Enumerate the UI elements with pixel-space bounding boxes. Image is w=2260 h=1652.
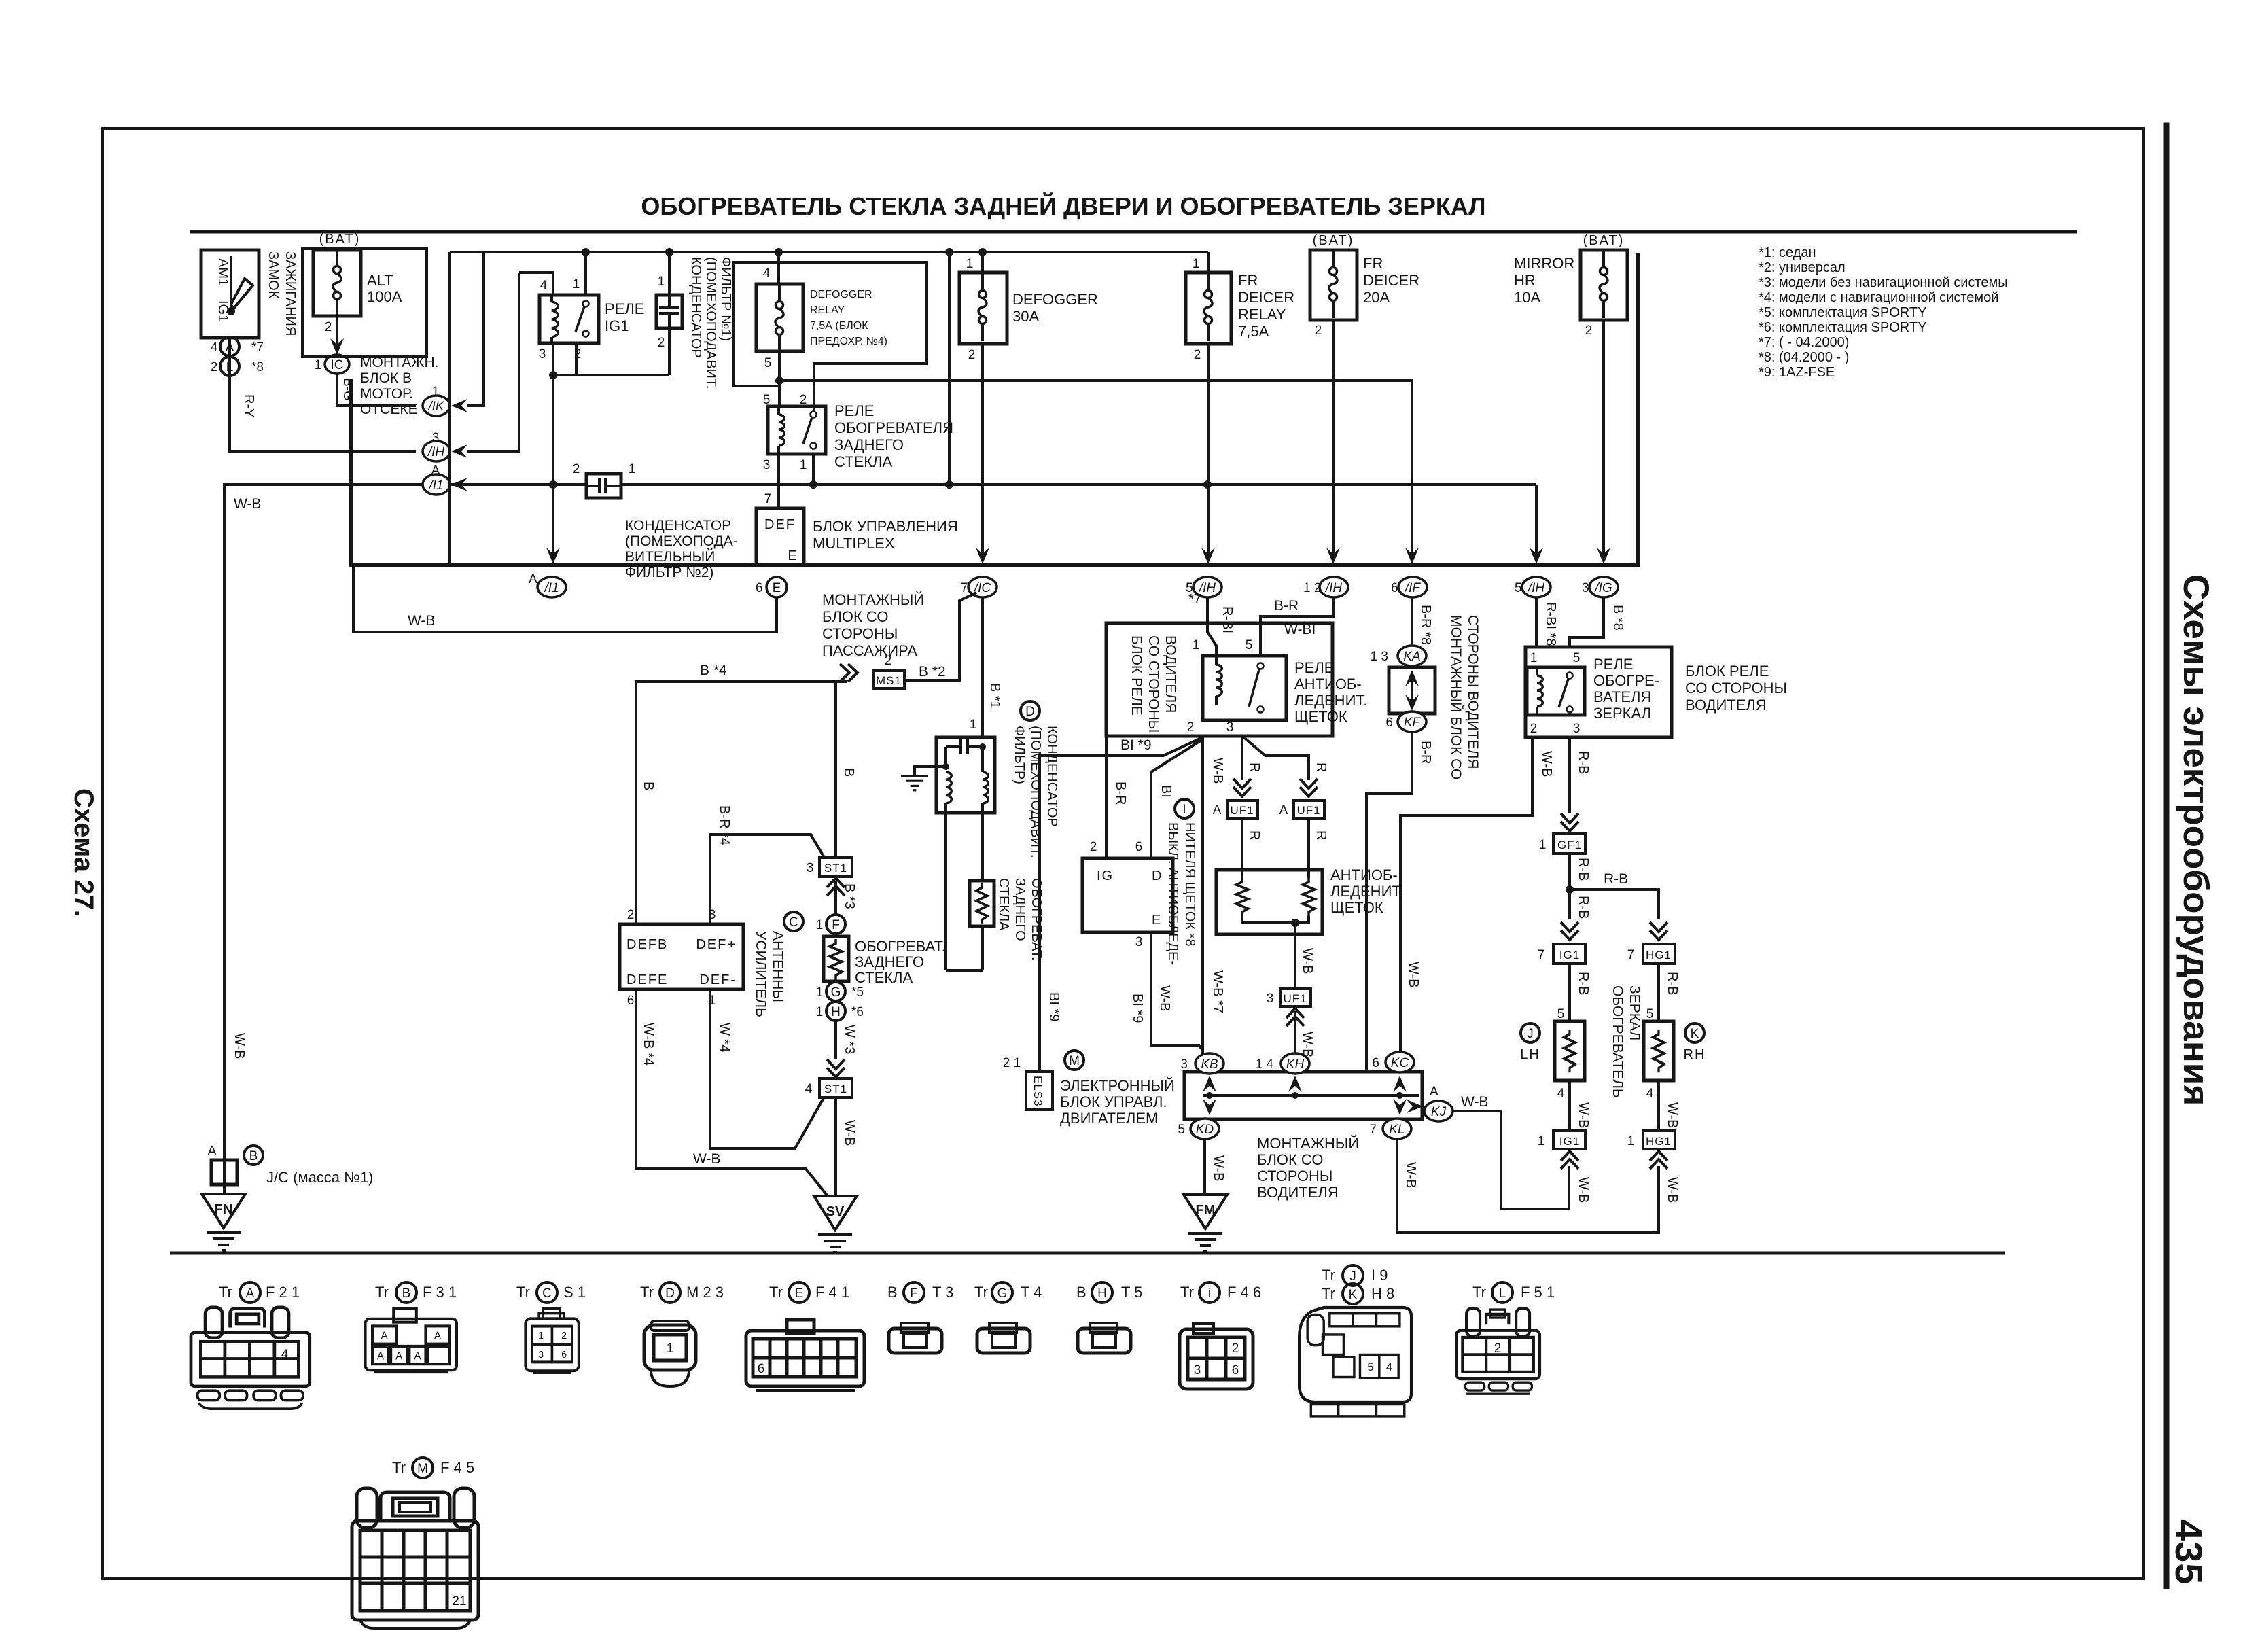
wire BI to D pin6 bbox=[1151, 739, 1203, 858]
svg-text:FR: FR bbox=[1363, 255, 1383, 272]
svg-text:1 4: 1 4 bbox=[1256, 1057, 1274, 1072]
svg-text:1: 1 bbox=[816, 918, 824, 932]
svg-text:КОНДЕНСАТОР: КОНДЕНСАТОР bbox=[688, 257, 703, 358]
svg-text:B-R *8: B-R *8 bbox=[1418, 605, 1433, 645]
svg-text:7: 7 bbox=[1369, 1123, 1377, 1137]
svg-text:4: 4 bbox=[281, 1348, 289, 1362]
internal bus with arrows bbox=[1203, 1094, 1419, 1097]
svg-text:HR: HR bbox=[1514, 272, 1536, 289]
svg-text:4: 4 bbox=[1646, 1087, 1654, 1101]
svg-text:KD: KD bbox=[1196, 1123, 1214, 1137]
svg-text:UF1: UF1 bbox=[1283, 992, 1307, 1005]
svg-text:5: 5 bbox=[763, 393, 771, 407]
svg-text:/IG: /IG bbox=[1593, 581, 1612, 595]
wire W-B mirror relay pin2 to KC bbox=[1400, 737, 1532, 1052]
svg-text:1: 1 bbox=[1530, 651, 1538, 665]
svg-text:ЗЕРКАЛ: ЗЕРКАЛ bbox=[1593, 705, 1651, 722]
svg-text:6: 6 bbox=[758, 1362, 765, 1376]
svg-text:*9: 1AZ-FSE: *9: 1AZ-FSE bbox=[1759, 365, 1835, 380]
svg-text:1: 1 bbox=[1538, 1134, 1545, 1148]
svg-text:Схема 27.: Схема 27. bbox=[69, 788, 99, 917]
svg-text:7: 7 bbox=[764, 492, 772, 506]
svg-text:W-B: W-B bbox=[234, 496, 261, 512]
svg-text:W-B: W-B bbox=[232, 1033, 247, 1059]
svg-text:3: 3 bbox=[539, 347, 546, 362]
IC connector oval bbox=[325, 355, 349, 374]
svg-text:Tr: Tr bbox=[640, 1284, 654, 1301]
svg-text:6: 6 bbox=[756, 581, 763, 595]
svg-text:A: A bbox=[395, 1350, 403, 1362]
svg-text:M: M bbox=[417, 1462, 428, 1476]
svg-text:ЗАМОК: ЗАМОК bbox=[266, 251, 281, 299]
svg-text:*7: ( - 04.2000): *7: ( - 04.2000) bbox=[1759, 335, 1849, 350]
svg-text:A: A bbox=[1430, 1085, 1438, 1099]
svg-text:D: D bbox=[665, 1286, 675, 1301]
svg-text:1: 1 bbox=[538, 1331, 544, 1342]
svg-text:W-B: W-B bbox=[1539, 751, 1554, 777]
svg-text:I 9: I 9 bbox=[1371, 1267, 1388, 1284]
svg-text:R-B: R-B bbox=[1576, 751, 1591, 774]
svg-text:Tr: Tr bbox=[1322, 1267, 1335, 1284]
svg-text:ВОДИТЕЛЯ: ВОДИТЕЛЯ bbox=[1685, 697, 1767, 714]
svg-text:G: G bbox=[997, 1286, 1008, 1301]
svg-text:AM1: AM1 bbox=[215, 258, 230, 286]
svg-text:G: G bbox=[831, 985, 841, 1000]
svg-text:3: 3 bbox=[1267, 991, 1274, 1006]
svg-text:B-R: B-R bbox=[1418, 741, 1433, 764]
svg-text:ЗАДНЕГО: ЗАДНЕГО bbox=[855, 953, 924, 970]
svg-text:(BAT): (BAT) bbox=[1313, 233, 1354, 248]
svg-text:R: R bbox=[1313, 830, 1328, 840]
svg-text:F 4 1: F 4 1 bbox=[815, 1284, 849, 1301]
wire W-B*4 DEFE to SV bbox=[636, 989, 828, 1196]
svg-text:T 3: T 3 bbox=[932, 1284, 953, 1301]
connector C S1 bbox=[525, 1309, 578, 1373]
svg-text:4: 4 bbox=[540, 279, 548, 293]
wire R relay pin3 to UF1 bbox=[1241, 736, 1243, 780]
svg-text:1: 1 bbox=[1627, 1134, 1635, 1148]
svg-text:W-B: W-B bbox=[1403, 1162, 1418, 1189]
svg-text:НИТЕЛЯ ЩЕТОК *8: НИТЕЛЯ ЩЕТОК *8 bbox=[1182, 822, 1197, 947]
svg-text:6: 6 bbox=[1385, 716, 1393, 730]
svg-text:IG1: IG1 bbox=[1559, 1135, 1580, 1148]
svg-text:2: 2 bbox=[1187, 720, 1195, 735]
svg-text:(ПОМЕХОПОДАВИТ.: (ПОМЕХОПОДАВИТ. bbox=[703, 257, 718, 389]
wire rail y560 to /IF bbox=[779, 381, 1412, 556]
svg-text:A: A bbox=[431, 463, 440, 478]
svg-text:1: 1 bbox=[658, 275, 665, 289]
svg-text:(BAT): (BAT) bbox=[319, 232, 361, 247]
svg-text:SV: SV bbox=[826, 1204, 845, 1219]
connector M F45 bbox=[352, 1488, 478, 1628]
svg-text:B: B bbox=[641, 781, 656, 790]
small junction connector square bbox=[211, 1160, 237, 1184]
svg-text:2: 2 bbox=[800, 393, 807, 407]
svg-text:/IH: /IH bbox=[1527, 581, 1545, 595]
svg-text:5: 5 bbox=[1178, 1123, 1185, 1137]
svg-text:A: A bbox=[529, 572, 537, 586]
svg-text:6: 6 bbox=[1135, 840, 1143, 854]
svg-text:FN: FN bbox=[215, 1202, 233, 1217]
capacitor (noise filter 2) bbox=[586, 474, 621, 498]
svg-text:1: 1 bbox=[432, 385, 440, 399]
svg-text:R: R bbox=[1247, 762, 1262, 772]
svg-text:СО СТОРОНЫ: СО СТОРОНЫ bbox=[1685, 680, 1787, 697]
svg-text:5: 5 bbox=[1646, 1007, 1654, 1021]
svg-text:BI *9: BI *9 bbox=[1046, 992, 1061, 1021]
connector E F41 bbox=[746, 1320, 864, 1390]
wire R-BI*8 to mirror relay pin1 bbox=[1535, 597, 1538, 647]
wire main left vertical bus bbox=[448, 252, 451, 565]
G and H circles bbox=[826, 982, 845, 1001]
svg-text:2: 2 bbox=[1315, 323, 1322, 338]
svg-text:Tr: Tr bbox=[375, 1284, 389, 1301]
svg-text:RELAY: RELAY bbox=[810, 304, 845, 316]
wire R-BI*7 to deicer relay pin1 bbox=[1207, 597, 1216, 656]
svg-text:СТЕКЛА: СТЕКЛА bbox=[996, 878, 1011, 931]
svg-text:R-Y: R-Y bbox=[241, 394, 256, 417]
svg-text:Tr: Tr bbox=[1472, 1284, 1486, 1301]
svg-text:100A: 100A bbox=[367, 288, 402, 305]
svg-text:E: E bbox=[795, 1286, 804, 1301]
svg-text:*8: *8 bbox=[251, 360, 264, 374]
svg-text:6: 6 bbox=[1391, 581, 1398, 595]
svg-text:DEF+: DEF+ bbox=[696, 937, 737, 952]
svg-text:ST1: ST1 bbox=[824, 1083, 847, 1095]
svg-text:ПРЕДОХР. №4): ПРЕДОХР. №4) bbox=[810, 336, 887, 347]
svg-text:ОТСЕКЕ: ОТСЕКЕ bbox=[360, 402, 418, 417]
svg-text:ELS3: ELS3 bbox=[1031, 1076, 1044, 1107]
svg-text:4: 4 bbox=[211, 340, 218, 355]
svg-text:СО СТОРОНЫ: СО СТОРОНЫ bbox=[1146, 635, 1161, 733]
svg-text:IG1: IG1 bbox=[215, 300, 230, 322]
svg-text:ЗАЖИГАНИЯ: ЗАЖИГАНИЯ bbox=[283, 251, 298, 336]
svg-text:B: B bbox=[841, 768, 856, 777]
svg-text:RELAY: RELAY bbox=[1238, 306, 1286, 323]
svg-text:1: 1 bbox=[816, 1005, 824, 1019]
svg-text:*4: модели с навигационной сис: *4: модели с навигационной системой bbox=[1759, 290, 1998, 305]
svg-text:1 2: 1 2 bbox=[1303, 581, 1321, 595]
svg-text:*1: седан: *1: седан bbox=[1759, 245, 1816, 260]
svg-text:ЩЕТОК: ЩЕТОК bbox=[1294, 708, 1347, 725]
svg-text:B: B bbox=[887, 1284, 898, 1301]
svg-text:7: 7 bbox=[961, 581, 968, 595]
svg-text:/I1: /I1 bbox=[543, 581, 559, 595]
svg-text:2: 2 bbox=[211, 360, 218, 374]
svg-text:H 8: H 8 bbox=[1371, 1285, 1394, 1302]
svg-text:*5: комплектация SPORTY: *5: комплектация SPORTY bbox=[1759, 305, 1926, 320]
svg-text:1: 1 bbox=[800, 458, 807, 472]
svg-text:R-BI: R-BI bbox=[1220, 606, 1235, 633]
svg-text:3: 3 bbox=[1180, 1057, 1188, 1072]
svg-text:IG1: IG1 bbox=[1559, 949, 1580, 962]
svg-text:435: 435 bbox=[2168, 1519, 2210, 1585]
svg-text:ОБОГРЕВАТ.: ОБОГРЕВАТ. bbox=[855, 938, 946, 955]
svg-text:FR: FR bbox=[1238, 272, 1258, 289]
svg-text:2: 2 bbox=[325, 320, 332, 334]
legend bbox=[1759, 245, 2008, 380]
wiper deicer heater box bbox=[1216, 870, 1322, 934]
svg-text:БЛОК В: БЛОК В bbox=[360, 370, 412, 386]
rear window heater resistor bbox=[824, 936, 849, 981]
svg-text:KC: KC bbox=[1391, 1056, 1409, 1070]
svg-text:W-B: W-B bbox=[1576, 1102, 1591, 1129]
svg-text:2: 2 bbox=[1585, 323, 1593, 338]
svg-text:B *1: B *1 bbox=[987, 683, 1002, 709]
svg-text:АНТИОБ-: АНТИОБ- bbox=[1330, 866, 1398, 883]
svg-text:/IF: /IF bbox=[1404, 581, 1422, 595]
svg-text:W-B: W-B bbox=[693, 1151, 720, 1167]
wire W-B return KJ to IG1 bbox=[1453, 1111, 1569, 1209]
svg-text:A: A bbox=[377, 1350, 385, 1362]
svg-text:F: F bbox=[832, 918, 840, 932]
wire to FN ground triangle bbox=[223, 1184, 226, 1194]
svg-text:E: E bbox=[1152, 913, 1161, 928]
wire W-B ground run to J/C bbox=[224, 485, 423, 1160]
svg-text:ЗАДНЕГО: ЗАДНЕГО bbox=[1012, 878, 1027, 941]
svg-text:BI *9: BI *9 bbox=[1120, 737, 1152, 753]
svg-text:Tr: Tr bbox=[516, 1284, 530, 1301]
svg-text:R-B: R-B bbox=[1576, 858, 1591, 881]
svg-text:M: M bbox=[1069, 1054, 1080, 1068]
connector J/K H8 bbox=[1299, 1307, 1411, 1416]
svg-text:HG1: HG1 bbox=[1646, 1135, 1672, 1148]
svg-text:БЛОК СО: БЛОК СО bbox=[822, 608, 888, 625]
wire W-B KD to FM ground bbox=[1203, 1139, 1206, 1195]
wire W-B from E to bus end bbox=[353, 565, 777, 632]
svg-text:2: 2 bbox=[968, 348, 976, 362]
svg-text:ЭЛЕКТРОННЫЙ: ЭЛЕКТРОННЫЙ bbox=[1060, 1077, 1175, 1094]
svg-text:J: J bbox=[1527, 1027, 1534, 1041]
svg-text:KH: KH bbox=[1286, 1057, 1305, 1072]
svg-text:2: 2 bbox=[561, 1331, 567, 1342]
svg-text:F 3 1: F 3 1 bbox=[423, 1284, 457, 1301]
svg-text:ОБОГРЕВАТЕЛЬ: ОБОГРЕВАТЕЛЬ bbox=[1610, 985, 1625, 1098]
svg-text:ВАТЕЛЯ: ВАТЕЛЯ bbox=[1593, 688, 1651, 705]
svg-text:W-B: W-B bbox=[1211, 1155, 1226, 1182]
svg-text:*6: *6 bbox=[851, 1005, 864, 1019]
svg-text:W-B: W-B bbox=[842, 1120, 857, 1146]
svg-text:УСИЛИТЕЛЬ: УСИЛИТЕЛЬ bbox=[753, 931, 769, 1017]
svg-text:B: B bbox=[402, 1286, 411, 1301]
svg-text:*3: модели без навигационной с: *3: модели без навигационной системы bbox=[1759, 275, 2008, 290]
svg-text:KB: KB bbox=[1201, 1057, 1218, 1072]
svg-text:DEFOGGER: DEFOGGER bbox=[810, 289, 872, 300]
svg-text:DEFE: DEFE bbox=[626, 972, 668, 987]
svg-text:IC: IC bbox=[331, 358, 344, 372]
svg-text:R-B: R-B bbox=[1576, 896, 1591, 919]
svg-text:K: K bbox=[1349, 1288, 1358, 1302]
svg-text:7,5А (БЛОК: 7,5А (БЛОК bbox=[810, 320, 868, 332]
svg-text:I: I bbox=[1182, 803, 1186, 817]
svg-text:(ПОМЕХОПОДА-: (ПОМЕХОПОДА- bbox=[625, 533, 738, 549]
svg-text:ОБОГРЕВАТЕЛЬ СТЕКЛА ЗАДНЕЙ ДВЕ: ОБОГРЕВАТЕЛЬ СТЕКЛА ЗАДНЕЙ ДВЕРИ И ОБОГР… bbox=[641, 192, 1485, 220]
svg-text:3: 3 bbox=[807, 861, 814, 875]
svg-text:БЛОК УПРАВЛЕНИЯ: БЛОК УПРАВЛЕНИЯ bbox=[813, 518, 958, 535]
svg-text:1: 1 bbox=[629, 462, 636, 476]
svg-text:W-B: W-B bbox=[408, 613, 435, 629]
svg-text:Tr: Tr bbox=[1180, 1284, 1194, 1301]
svg-text:BI *9: BI *9 bbox=[1130, 994, 1145, 1023]
wire B*1 /IC to noise filter D bbox=[981, 597, 984, 737]
svg-text:IG1: IG1 bbox=[605, 317, 629, 334]
svg-text:СТЕКЛА: СТЕКЛА bbox=[855, 969, 913, 986]
svg-text:M 2 3: M 2 3 bbox=[686, 1284, 724, 1301]
svg-text:ЩЕТОК: ЩЕТОК bbox=[1330, 899, 1383, 916]
svg-text:3: 3 bbox=[538, 1350, 544, 1361]
svg-text:F: F bbox=[910, 1286, 918, 1301]
svg-text:W-B: W-B bbox=[1157, 985, 1172, 1012]
svg-text:10A: 10A bbox=[1514, 289, 1540, 306]
svg-text:5: 5 bbox=[1515, 581, 1522, 595]
svg-text:Tr: Tr bbox=[769, 1284, 783, 1301]
svg-text:MS1: MS1 bbox=[876, 674, 902, 687]
svg-text:5: 5 bbox=[1557, 1007, 1565, 1021]
svg-text:4: 4 bbox=[763, 266, 771, 281]
svg-text:BI: BI bbox=[1159, 785, 1173, 798]
svg-text:3: 3 bbox=[1582, 581, 1589, 595]
svg-text:3: 3 bbox=[1573, 722, 1581, 736]
svg-text:H: H bbox=[1097, 1286, 1107, 1301]
wire W-B E pin3 to KB bbox=[1151, 932, 1203, 1050]
wire W-B heater to 3UF1 bbox=[1294, 923, 1296, 989]
pin L circle bbox=[220, 357, 239, 376]
svg-text:W-B: W-B bbox=[1300, 948, 1315, 974]
svg-text:ЛЕДЕНИТ.: ЛЕДЕНИТ. bbox=[1294, 692, 1368, 709]
F circle bbox=[826, 915, 845, 934]
svg-text:*6: комплектация SPORTY: *6: комплектация SPORTY bbox=[1759, 320, 1926, 335]
ignition switch lever bbox=[228, 256, 253, 314]
svg-text:1: 1 bbox=[1193, 638, 1200, 652]
wire W-B*7 relay pin2 to KB bbox=[1201, 736, 1204, 1060]
svg-text:F 5 1: F 5 1 bbox=[1521, 1284, 1555, 1301]
wire FR deicer relay pin2 to /IH bbox=[1207, 344, 1210, 556]
svg-text:R: R bbox=[1313, 762, 1328, 772]
svg-text:KF: KF bbox=[1404, 716, 1422, 730]
svg-text:6: 6 bbox=[1372, 1056, 1379, 1070]
svg-text:2: 2 bbox=[1494, 1341, 1502, 1356]
svg-text:1: 1 bbox=[1539, 838, 1547, 852]
pin A circle bbox=[220, 337, 239, 356]
svg-text:A: A bbox=[434, 1330, 442, 1341]
svg-text:ЗАДНЕГО: ЗАДНЕГО bbox=[834, 436, 904, 453]
svg-text:7: 7 bbox=[1538, 948, 1545, 962]
svg-text:J/C (масса №1): J/C (масса №1) bbox=[266, 1169, 373, 1186]
svg-text:БЛОК РЕЛЕ: БЛОК РЕЛЕ bbox=[1129, 635, 1144, 716]
svg-text:E: E bbox=[773, 581, 781, 595]
svg-text:АНТИОБ-: АНТИОБ- bbox=[1294, 675, 1362, 692]
svg-text:*7: *7 bbox=[1188, 592, 1201, 607]
svg-text:РЕЛЕ: РЕЛЕ bbox=[605, 300, 644, 317]
svg-text:W *4: W *4 bbox=[717, 1023, 732, 1052]
I circle + wiper deicer switch caption bbox=[1175, 799, 1194, 818]
ALT 100A fuse bbox=[313, 250, 361, 316]
svg-text:DEF-: DEF- bbox=[699, 972, 737, 987]
wire node I1 horizontal bbox=[450, 483, 586, 486]
connector ovals on bus bbox=[537, 577, 1618, 597]
svg-text:B-R: B-R bbox=[1113, 781, 1128, 805]
wire relay IG1 pin4 to /IH bbox=[467, 273, 519, 451]
svg-text:KJ: KJ bbox=[1431, 1105, 1447, 1119]
svg-text:5: 5 bbox=[1246, 638, 1253, 652]
wire B-R*4 DEF+ to 3ST1 bbox=[710, 834, 824, 924]
svg-text:F 4 5: F 4 5 bbox=[440, 1459, 474, 1476]
svg-text:3: 3 bbox=[432, 431, 440, 445]
svg-text:Tr: Tr bbox=[392, 1459, 406, 1476]
svg-text:T 5: T 5 bbox=[1121, 1284, 1142, 1301]
title underline bbox=[190, 230, 2077, 234]
svg-text:A: A bbox=[1279, 803, 1288, 818]
svg-text:ЗЕРКАЛ: ЗЕРКАЛ bbox=[1627, 985, 1642, 1040]
SV ground bbox=[814, 1196, 857, 1230]
wire B-R/W-BI to deicer relay pin5 bbox=[1260, 597, 1334, 656]
svg-text:KL: KL bbox=[1389, 1123, 1405, 1137]
svg-text:W-B: W-B bbox=[1665, 1102, 1680, 1129]
svg-text:2: 2 bbox=[1090, 840, 1097, 854]
svg-text:1: 1 bbox=[1193, 257, 1200, 271]
wire B-R*8 /IF to KA bbox=[1411, 597, 1413, 646]
svg-text:GF1: GF1 bbox=[1557, 839, 1582, 851]
svg-text:3: 3 bbox=[1194, 1363, 1201, 1377]
svg-text:DEICER: DEICER bbox=[1238, 289, 1294, 306]
svg-text:ОБОГРЕ-: ОБОГРЕ- bbox=[1593, 672, 1659, 689]
svg-text:/IH: /IH bbox=[427, 445, 445, 459]
svg-text:СТОРОНЫ: СТОРОНЫ bbox=[1257, 1167, 1332, 1184]
svg-text:5: 5 bbox=[764, 356, 772, 370]
svg-text:1 3: 1 3 bbox=[1371, 650, 1388, 664]
3ST1 bbox=[819, 858, 852, 877]
svg-text:B: B bbox=[249, 1149, 258, 1163]
loop below with heater resistor 2 bbox=[944, 813, 947, 970]
svg-text:1: 1 bbox=[573, 277, 580, 292]
svg-text:HG1: HG1 bbox=[1646, 949, 1672, 962]
svg-text:E: E bbox=[788, 548, 796, 563]
svg-text:S 1: S 1 bbox=[563, 1284, 586, 1301]
ignition lock box bbox=[201, 250, 259, 338]
svg-text:B *8: B *8 bbox=[1610, 605, 1625, 631]
connector A F21 bbox=[191, 1307, 310, 1409]
inner relay bbox=[1203, 656, 1286, 720]
MS1 connector bbox=[840, 664, 858, 682]
svg-text:2: 2 bbox=[1232, 1341, 1239, 1356]
svg-text:МОНТАЖН.: МОНТАЖН. bbox=[360, 355, 439, 370]
wire relay IG1 pin1 bbox=[584, 252, 587, 295]
svg-text:30A: 30A bbox=[1012, 308, 1039, 325]
connector G T4 bbox=[977, 1323, 1030, 1353]
wire mirror HR pin2 to /IG bbox=[1602, 320, 1605, 556]
svg-text:C: C bbox=[789, 915, 798, 930]
svg-text:Tr: Tr bbox=[974, 1284, 988, 1301]
svg-text:K: K bbox=[1691, 1027, 1699, 1041]
vertical down to bus with junction at I1 line bbox=[552, 375, 554, 556]
wire top power rail bbox=[450, 251, 1208, 253]
svg-text:КОНДЕНСАТОР: КОНДЕНСАТОР bbox=[625, 518, 731, 533]
pin4 loop up-left bbox=[519, 273, 553, 295]
svg-text:2: 2 bbox=[1194, 348, 1201, 362]
svg-text:ВИТЕЛЬНЫЙ: ВИТЕЛЬНЫЙ bbox=[625, 548, 715, 565]
svg-text:РЕЛЕ: РЕЛЕ bbox=[1593, 656, 1633, 673]
svg-text:A: A bbox=[414, 1350, 421, 1362]
svg-text:W *3: W *3 bbox=[842, 1025, 857, 1054]
sidebar thick rule bbox=[2164, 126, 2170, 1586]
svg-text:КОНДЕНСАТОР: КОНДЕНСАТОР bbox=[1044, 726, 1059, 827]
svg-text:7,5A: 7,5A bbox=[1238, 323, 1269, 340]
svg-text:СТЕКЛА: СТЕКЛА bbox=[834, 453, 893, 470]
passenger junction block bus bbox=[351, 253, 1638, 565]
svg-text:MIRROR: MIRROR bbox=[1514, 255, 1574, 272]
wire R-B mirror relay pin3 to GF1 bbox=[1568, 737, 1571, 813]
arrows into ovals from right bbox=[451, 399, 467, 412]
